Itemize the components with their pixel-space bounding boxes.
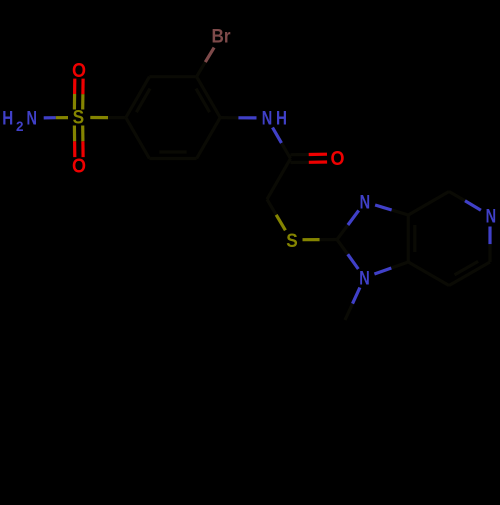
svg-text:O: O: [72, 59, 86, 82]
benzene bond C5=C6 inner: [159, 150, 186, 153]
pyridine bond C4=N5 (drawn single): [449, 192, 465, 201]
imidazole bond C2=N3 (drawn single): [337, 225, 348, 240]
svg-text:Br: Br: [212, 26, 231, 48]
benzene bond C3=C4 inner: [196, 89, 210, 113]
imidazole bond N1-C2: [348, 254, 359, 269]
bond C-CH2: [267, 159, 291, 200]
fused bond C3a=C7a: [407, 215, 410, 262]
bond S-C2 imidazole: [303, 238, 320, 241]
bond C3-Br: [197, 62, 206, 77]
benzene bond C5=C6: [149, 157, 196, 160]
pyridine bond N5-C6: [488, 227, 491, 245]
bond N-C carbonyl: [273, 128, 282, 144]
svg-text:H: H: [276, 108, 287, 130]
bond N1-methyl: [353, 288, 360, 304]
svg-text:2: 2: [16, 119, 24, 134]
pyridine bond C3a-C4: [408, 192, 449, 216]
bond C4-N amide: [220, 116, 238, 119]
svg-text:H: H: [2, 108, 13, 130]
benzene bond C1=C2 inner: [136, 89, 150, 113]
svg-text:N: N: [262, 108, 273, 130]
svg-text:S: S: [73, 107, 85, 129]
svg-text:O: O: [72, 155, 86, 178]
double bond S=O top: [81, 94, 84, 109]
svg-text:N: N: [359, 267, 370, 289]
fused bond C3a=C7a inner: [413, 225, 416, 252]
svg-text:S: S: [286, 230, 298, 252]
imidazole bond C7a-N1: [391, 262, 408, 268]
imidazole bond N3-C3a: [375, 205, 392, 210]
svg-text:N: N: [486, 206, 497, 228]
bond N-S sulfonamide: [44, 116, 56, 119]
benzene bond C1=C2: [126, 77, 150, 118]
bond S-C1: [90, 116, 108, 119]
svg-text:O: O: [331, 147, 345, 170]
double bond S=O bottom: [73, 126, 76, 142]
double bond C=O carbonyl: [291, 161, 309, 164]
svg-text:N: N: [360, 191, 371, 213]
pyridine bond C6=C7 inner: [455, 261, 479, 275]
benzene bond C6-C1: [126, 118, 150, 159]
pyridine bond C7-C7a: [408, 262, 449, 286]
bond CH2-S thioether: [267, 199, 276, 215]
svg-text:N: N: [26, 108, 37, 130]
pyridine bond C6=C7: [449, 262, 490, 286]
benzene bond C2-C3: [149, 75, 196, 78]
benzene bond C3=C4: [197, 77, 221, 118]
benzene bond C4-C5: [197, 118, 221, 159]
